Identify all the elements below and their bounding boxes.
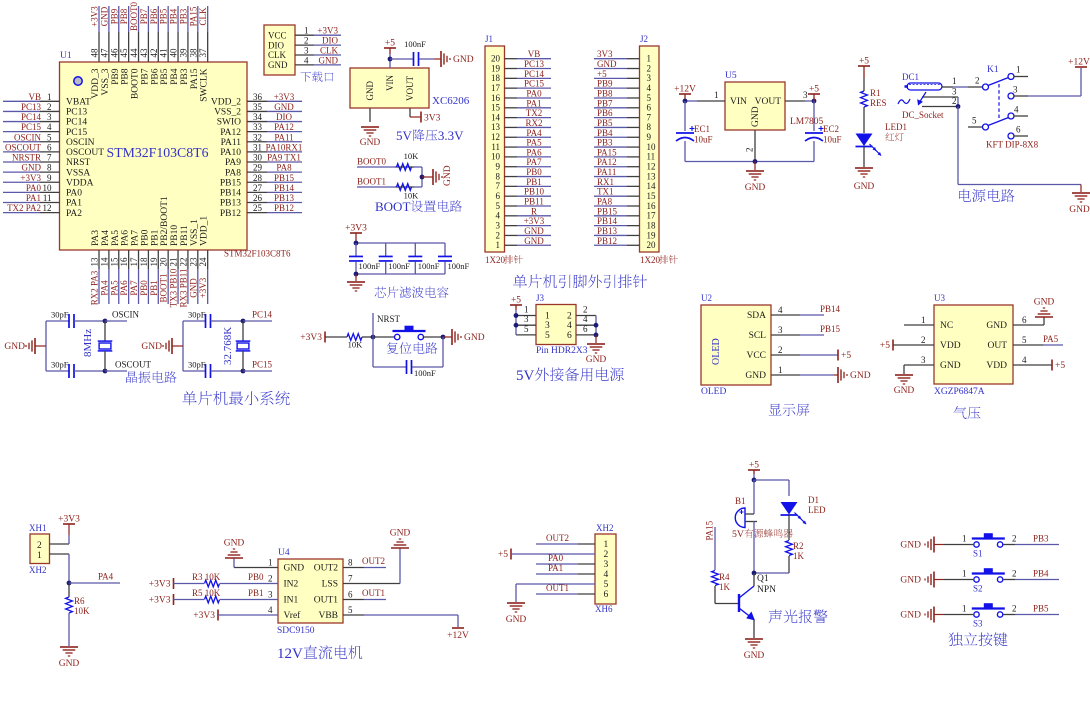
wire LED1 to ground <box>863 147 865 167</box>
svg-text:5: 5 <box>604 580 609 590</box>
capacitor 100nF reset loop <box>372 337 374 367</box>
wire filter bottom rail <box>356 273 445 275</box>
U1 left pin 3 PC14 wire/net PC14 <box>3 121 40 123</box>
J3 pin1 wire <box>516 315 536 317</box>
ground crystal left <box>34 338 36 354</box>
svg-text:+3V3: +3V3 <box>149 580 171 590</box>
svg-text:GND: GND <box>745 371 766 381</box>
svg-text:EC2: EC2 <box>823 124 839 134</box>
svg-text:PB13: PB13 <box>220 199 241 209</box>
svg-text:2: 2 <box>921 335 926 345</box>
svg-text:+12V: +12V <box>674 85 696 95</box>
svg-text:3: 3 <box>496 220 501 230</box>
svg-text:VDD_1: VDD_1 <box>200 216 210 246</box>
sensor U3 body <box>934 305 1013 384</box>
svg-text:R6: R6 <box>74 596 85 606</box>
svg-text:3: 3 <box>268 590 273 600</box>
svg-text:J1: J1 <box>485 34 493 44</box>
svg-text:LED1: LED1 <box>885 122 907 132</box>
svg-text:38: 38 <box>188 48 198 58</box>
svg-text:PA11: PA11 <box>597 167 616 177</box>
wire gnd rail J3 <box>595 316 597 335</box>
svg-text:7: 7 <box>348 574 353 584</box>
svg-text:PB0: PB0 <box>139 280 149 296</box>
svg-text:GND: GND <box>524 236 544 246</box>
svg-text:SDC9150: SDC9150 <box>277 626 315 636</box>
title independent keys <box>948 633 962 647</box>
wire +5 rail J3 <box>515 305 517 310</box>
ground BOOT <box>422 176 433 178</box>
svg-text:100nF: 100nF <box>359 261 381 271</box>
DC1 pin 1 wire <box>942 86 953 88</box>
svg-text:18: 18 <box>491 73 501 83</box>
svg-text:DC_Socket: DC_Socket <box>902 110 944 120</box>
svg-text:SWCLK: SWCLK <box>200 68 210 101</box>
svg-text:R3 10K: R3 10K <box>192 572 221 582</box>
wire S1 pin1 <box>944 544 973 546</box>
svg-text:GND: GND <box>597 59 617 69</box>
U1 bottom pin 18 PB0 wire/net PB0 <box>147 250 149 269</box>
svg-text:PB15: PB15 <box>220 178 241 188</box>
driver U4 body <box>278 559 343 623</box>
svg-text:PB14: PB14 <box>820 304 841 314</box>
svg-text:GND: GND <box>745 183 766 193</box>
svg-text:PB10: PB10 <box>524 187 545 197</box>
svg-text:7: 7 <box>47 153 52 163</box>
power +5 into XC6206 <box>384 47 396 49</box>
svg-text:2: 2 <box>1012 604 1017 614</box>
svg-text:1: 1 <box>647 54 652 64</box>
U4 pin3 IN1 with R5 <box>173 594 175 605</box>
capacitor 30pF bottom-right <box>183 370 205 372</box>
svg-text:32.768K: 32.768K <box>222 327 234 365</box>
svg-text:9: 9 <box>647 132 652 142</box>
svg-text:PA6: PA6 <box>121 230 131 246</box>
svg-text:10K: 10K <box>74 606 90 616</box>
svg-text:LED: LED <box>808 505 826 515</box>
XH1 pin1 wire <box>50 553 70 555</box>
U1 top pin 43 PB7 wire/net PB7 <box>147 6 149 32</box>
U4 pin8 OUT2 wire <box>343 567 364 569</box>
svg-text:PA4: PA4 <box>98 572 114 582</box>
svg-text:PB11: PB11 <box>180 225 190 246</box>
U1 top pin 38 PA15 wire/net PA15 <box>197 6 199 32</box>
svg-text:+3V3: +3V3 <box>90 6 100 27</box>
wire R2 to collector node <box>788 556 790 573</box>
svg-text:GND: GND <box>940 361 961 371</box>
svg-text:U5: U5 <box>725 71 737 81</box>
svg-text:BOOT1: BOOT1 <box>357 177 386 187</box>
svg-text:VDD_3: VDD_3 <box>91 68 101 98</box>
svg-text:GND: GND <box>443 165 453 186</box>
svg-text:PB15: PB15 <box>597 206 618 216</box>
K1 pin6 <box>1008 133 1014 139</box>
svg-text:2: 2 <box>975 76 980 86</box>
svg-text:U4: U4 <box>278 548 290 558</box>
svg-text:1: 1 <box>778 365 783 375</box>
U4 pin5 VBB wire to +12V <box>343 614 364 616</box>
XC6206 VOUT to 3V3 <box>409 108 411 117</box>
svg-text:PB1: PB1 <box>526 177 542 187</box>
svg-text:22: 22 <box>178 258 188 267</box>
push button S2 <box>974 577 979 582</box>
svg-text:4: 4 <box>604 570 609 580</box>
U1 top pin 40 PB4 wire/net PB4 <box>177 6 179 32</box>
LED LED1 red <box>856 134 873 147</box>
svg-text:5: 5 <box>524 324 529 334</box>
svg-text:VB: VB <box>28 92 41 102</box>
buzzer B1 wire top <box>753 480 755 514</box>
K1 pin5 and lever 5-4 <box>983 124 989 130</box>
svg-text:R5 10K: R5 10K <box>192 588 221 598</box>
svg-text:PB1: PB1 <box>248 588 264 598</box>
svg-text:VCC: VCC <box>746 351 766 361</box>
svg-text:NC: NC <box>940 321 953 331</box>
svg-text:OUT2: OUT2 <box>314 564 339 574</box>
power +3V3 reset <box>324 332 326 343</box>
svg-text:20: 20 <box>647 240 657 250</box>
svg-text:3: 3 <box>1013 85 1018 95</box>
svg-text:PA15: PA15 <box>597 147 617 157</box>
svg-text:3: 3 <box>803 90 808 100</box>
svg-text:44: 44 <box>129 48 139 58</box>
svg-text:Pin HDR2X3: Pin HDR2X3 <box>536 346 588 356</box>
connector J3 body HDR2X3 <box>536 305 576 345</box>
wire button to gnd node <box>424 336 443 338</box>
U1 top pin 45 PB8 wire/net PB8 <box>128 6 130 32</box>
node DC output junction <box>957 97 959 107</box>
svg-text:2: 2 <box>37 541 42 551</box>
svg-text:30pF: 30pF <box>51 360 69 370</box>
svg-text:29: 29 <box>253 163 263 173</box>
svg-text:PB9: PB9 <box>111 68 121 85</box>
connector J2 body 1X20 <box>640 46 660 252</box>
svg-text:4: 4 <box>1014 105 1019 115</box>
svg-text:PC15: PC15 <box>21 122 42 132</box>
svg-text:VIN: VIN <box>385 75 395 91</box>
ground LED1 <box>855 167 864 169</box>
svg-text:XGZP6847A: XGZP6847A <box>934 387 985 397</box>
J3 pin4 wire <box>576 324 596 326</box>
ground J3 <box>595 335 597 343</box>
U1 bottom pin 21 PB10 wire/net TX3 PB10 <box>177 250 179 269</box>
svg-text:OSCOUT: OSCOUT <box>115 360 152 370</box>
connector XH2 body <box>595 534 616 604</box>
svg-text:BOOT: BOOT <box>375 199 410 214</box>
svg-text:PA1: PA1 <box>548 563 563 573</box>
svg-text:13: 13 <box>491 122 501 132</box>
U1 right pin 28 PB15 wire/net PB15 <box>247 181 267 183</box>
svg-text:1: 1 <box>1016 65 1021 75</box>
ground crystal right <box>171 338 173 354</box>
connector XH1 body <box>30 534 50 564</box>
svg-text:1: 1 <box>268 558 273 568</box>
node NRST junction <box>371 335 376 340</box>
svg-text:GND: GND <box>453 55 474 65</box>
svg-text:PB5: PB5 <box>159 8 169 24</box>
svg-text:GND: GND <box>188 278 198 298</box>
svg-text:6: 6 <box>567 331 572 341</box>
svg-text:OSCOUT: OSCOUT <box>5 142 42 152</box>
svg-text:6: 6 <box>348 590 353 600</box>
power +5 J3 <box>510 304 522 306</box>
svg-text:14: 14 <box>647 181 657 191</box>
K1 pin1 <box>1008 74 1014 80</box>
resistor R2 1K <box>786 541 793 556</box>
XH2 pin6 net OUT1 <box>536 593 578 595</box>
svg-text:10uF: 10uF <box>823 135 842 145</box>
svg-text:DC1: DC1 <box>902 72 919 82</box>
svg-text:PB3: PB3 <box>1033 534 1049 544</box>
DC1 ground-pin squiggle <box>898 99 910 104</box>
svg-text:GND: GND <box>274 102 294 112</box>
capacitor EC1 10uF <box>684 101 686 131</box>
svg-text:13: 13 <box>90 257 100 267</box>
DC1 pin 3 wire <box>922 96 958 98</box>
svg-text:CLK: CLK <box>320 46 339 56</box>
svg-text:33: 33 <box>253 122 263 132</box>
svg-text:6: 6 <box>496 191 501 201</box>
wire +12V to VIN pin 1 <box>685 100 697 102</box>
svg-text:GND: GND <box>854 182 875 192</box>
wire down to PA4 node <box>68 554 70 583</box>
svg-text:+5: +5 <box>511 296 521 306</box>
svg-text:5: 5 <box>647 93 652 103</box>
U3 pin2 VDD to +5 <box>892 340 894 351</box>
svg-text:PC15: PC15 <box>252 360 273 370</box>
node OSCOUT <box>103 369 108 374</box>
svg-text:SCL: SCL <box>749 331 767 341</box>
push button S3 <box>974 612 979 617</box>
svg-text:47: 47 <box>99 48 109 58</box>
svg-text:Q1: Q1 <box>757 574 769 584</box>
svg-text:S3: S3 <box>973 619 983 629</box>
svg-text:DIO: DIO <box>322 36 338 46</box>
svg-text:PB3: PB3 <box>597 138 613 148</box>
svg-text:2: 2 <box>778 345 783 355</box>
resistor 10K BOOT0 <box>397 164 412 171</box>
ground filter caps <box>355 274 357 281</box>
svg-text:PB5: PB5 <box>1033 604 1049 614</box>
svg-text:1: 1 <box>37 551 42 561</box>
svg-text:5V: 5V <box>516 368 535 384</box>
display U2 body <box>701 305 771 385</box>
wire S3 pin2 net PB5 <box>1004 614 1016 616</box>
svg-text:+5: +5 <box>498 550 508 560</box>
ground power circuit <box>1080 185 1082 193</box>
svg-text:PA11: PA11 <box>221 138 242 148</box>
svg-text:6: 6 <box>647 103 652 113</box>
title crystal circuit <box>126 371 137 383</box>
svg-text:3: 3 <box>524 314 529 324</box>
svg-text:GND: GND <box>900 541 921 551</box>
svg-text:EC1: EC1 <box>694 124 710 134</box>
svg-text:10: 10 <box>43 183 53 193</box>
svg-text:PB12: PB12 <box>597 236 617 246</box>
svg-text:19: 19 <box>149 257 159 267</box>
J3 pin5 wire <box>516 334 536 336</box>
svg-text:GND: GND <box>894 386 915 396</box>
capacitor 100nF filter C1 <box>355 243 357 256</box>
svg-text:100nF: 100nF <box>404 39 426 49</box>
U1 top pin 48 VDD_3 wire/net +3V3 <box>98 6 100 32</box>
wire LED to R2 <box>788 515 790 540</box>
svg-text:25: 25 <box>253 203 263 213</box>
svg-text:30pF: 30pF <box>51 310 69 320</box>
svg-text:+5: +5 <box>385 39 395 49</box>
svg-text:12: 12 <box>43 203 52 213</box>
svg-text:10K: 10K <box>348 340 364 350</box>
svg-text:TX3 PB10: TX3 PB10 <box>169 268 179 307</box>
svg-text:VCC: VCC <box>268 30 287 40</box>
svg-text:7: 7 <box>647 112 652 122</box>
crystal right rail <box>182 321 184 371</box>
node OSCIN <box>103 319 108 324</box>
U1 bottom pin 23 VSS_1 wire/net GND <box>197 250 199 269</box>
wire S2 pin2 net PB4 <box>1004 579 1016 581</box>
svg-text:12: 12 <box>491 132 500 142</box>
title chip filter caps <box>375 287 387 298</box>
svg-text:GND: GND <box>141 342 162 352</box>
svg-text:4: 4 <box>496 211 501 221</box>
svg-text:32: 32 <box>253 132 262 142</box>
svg-text:3V3: 3V3 <box>424 114 441 124</box>
svg-text:6: 6 <box>1022 315 1027 325</box>
svg-text:16: 16 <box>647 201 657 211</box>
svg-text:16: 16 <box>119 257 129 267</box>
title display <box>769 404 782 416</box>
svg-text:+5: +5 <box>1055 361 1065 371</box>
U1 STM32F103C8T6 body <box>60 62 248 250</box>
power +5 alarm <box>748 469 760 471</box>
svg-text:15: 15 <box>491 103 501 113</box>
svg-text:PA4: PA4 <box>99 280 109 296</box>
svg-text:2: 2 <box>952 96 957 106</box>
XH2 pin5 to ground <box>516 583 595 585</box>
svg-text:PB4: PB4 <box>597 128 613 138</box>
svg-text:8: 8 <box>348 558 353 568</box>
svg-text:PB3: PB3 <box>180 68 190 85</box>
crystal left rail <box>45 321 47 371</box>
svg-text:NPN: NPN <box>757 585 776 595</box>
svg-text:IN2: IN2 <box>284 580 299 590</box>
svg-text:PB1: PB1 <box>149 280 159 296</box>
svg-text:3: 3 <box>47 112 52 122</box>
svg-text:3: 3 <box>304 46 309 56</box>
svg-text:+3V3: +3V3 <box>193 611 215 621</box>
wire DC node to ground rail <box>957 107 959 185</box>
U1 left pin 2 PC13 wire/net PC13 <box>3 110 40 112</box>
regulator XC6206 body <box>350 68 429 108</box>
svg-text:R: R <box>531 206 537 216</box>
svg-text:1: 1 <box>952 76 957 86</box>
svg-text:K1: K1 <box>987 65 999 75</box>
U1 right pin 25 PB12 wire/net PB12 <box>247 212 267 214</box>
title power circuit <box>959 189 971 202</box>
svg-text:PA12: PA12 <box>220 128 241 138</box>
capacitor 100nF filter C2 <box>385 243 387 256</box>
svg-text:GND: GND <box>390 529 411 539</box>
XH2 pin4 net PA1 <box>536 573 578 575</box>
svg-text:PB11: PB11 <box>524 197 544 207</box>
svg-text:BOOT0: BOOT0 <box>131 68 141 99</box>
svg-text:3V3: 3V3 <box>597 49 613 59</box>
svg-text:GND: GND <box>586 355 607 365</box>
svg-text:GND: GND <box>850 371 871 381</box>
svg-text:17: 17 <box>491 83 501 93</box>
svg-text:PB15: PB15 <box>820 324 841 334</box>
svg-text:D1: D1 <box>808 495 819 505</box>
svg-text:GND: GND <box>224 539 245 549</box>
svg-text:GND: GND <box>1034 298 1055 308</box>
svg-text:2: 2 <box>583 305 588 315</box>
U1 left pin 8 VSSA wire/net GND <box>3 171 40 173</box>
svg-text:5V: 5V <box>732 529 744 540</box>
net PA4 wire <box>69 582 120 584</box>
svg-text:GND: GND <box>464 333 485 343</box>
svg-text:3: 3 <box>647 73 652 83</box>
U1 left pin 12 PA2 wire/net TX2 PA2 <box>3 212 40 214</box>
K1 pin2 stub and pole <box>968 86 982 88</box>
capacitor 30pF top-left <box>46 320 69 322</box>
svg-text:2: 2 <box>47 102 52 112</box>
svg-text:IN1: IN1 <box>284 596 299 606</box>
power +3V3 XH1 <box>63 523 75 525</box>
svg-text:STM32F103C8T6: STM32F103C8T6 <box>224 249 291 259</box>
svg-text:18: 18 <box>647 220 657 230</box>
svg-text:100nF: 100nF <box>448 261 470 271</box>
svg-text:S1: S1 <box>973 549 983 559</box>
svg-text:9: 9 <box>496 162 501 172</box>
svg-text:100nF: 100nF <box>388 261 410 271</box>
svg-text:18: 18 <box>139 257 149 267</box>
U1 bottom pin 15 PA5 wire/net PA5 <box>118 250 120 269</box>
XH2 pin2 to +5 <box>510 549 512 560</box>
svg-text:5V: 5V <box>396 128 413 143</box>
DC socket barrel symbol <box>907 83 942 90</box>
svg-text:PC15: PC15 <box>66 128 87 138</box>
svg-text:6: 6 <box>583 324 588 334</box>
wire to LED branch <box>754 479 789 481</box>
svg-text:PC13: PC13 <box>66 108 87 118</box>
capacitor EC2 10uF <box>813 101 815 131</box>
svg-text:VSS_2: VSS_2 <box>214 108 241 118</box>
svg-text:21: 21 <box>169 258 179 267</box>
svg-text:PC15: PC15 <box>524 79 545 89</box>
svg-text:PB4: PB4 <box>1033 569 1049 579</box>
svg-text:VDD_2: VDD_2 <box>211 98 241 108</box>
svg-text:PB12: PB12 <box>220 209 241 219</box>
svg-text:PA7: PA7 <box>131 230 141 246</box>
svg-text:35: 35 <box>253 102 263 112</box>
svg-text:PA12: PA12 <box>274 122 294 132</box>
U1 bottom pin 19 PB1 wire/net PB1 <box>157 250 159 269</box>
svg-text:+3V3: +3V3 <box>149 596 171 606</box>
svg-text:15: 15 <box>647 191 657 201</box>
power +5 output <box>808 93 820 95</box>
svg-text:PA5: PA5 <box>1043 334 1059 344</box>
svg-text:5: 5 <box>972 116 977 126</box>
svg-text:OUT1: OUT1 <box>546 583 569 593</box>
svg-text:PB4: PB4 <box>170 68 180 85</box>
svg-text:NRST: NRST <box>66 158 90 168</box>
svg-text:3: 3 <box>778 325 783 335</box>
svg-text:PB0: PB0 <box>526 167 542 177</box>
svg-text:100nF: 100nF <box>418 261 440 271</box>
svg-text:PA1: PA1 <box>526 98 541 108</box>
svg-text:+5: +5 <box>880 341 890 351</box>
U1 top pin 39 PB3 wire/net PB3 <box>187 6 189 32</box>
